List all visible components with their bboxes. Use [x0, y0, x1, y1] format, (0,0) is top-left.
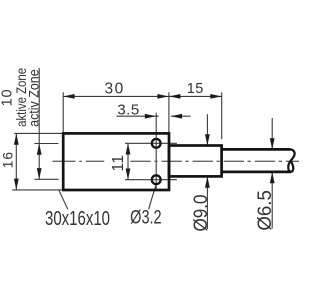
- svg-text:Ø3.2: Ø3.2: [130, 206, 162, 228]
- svg-text:activ Zone: activ Zone: [26, 69, 42, 127]
- svg-text:15: 15: [187, 81, 204, 97]
- svg-text:3.5: 3.5: [117, 101, 139, 118]
- svg-text:11: 11: [110, 154, 127, 171]
- svg-text:30x16x10: 30x16x10: [45, 208, 110, 230]
- svg-text:Ø9.0: Ø9.0: [191, 195, 212, 232]
- svg-text:Ø6.5: Ø6.5: [255, 190, 276, 231]
- svg-text:30: 30: [104, 81, 124, 98]
- svg-text:16: 16: [0, 151, 16, 168]
